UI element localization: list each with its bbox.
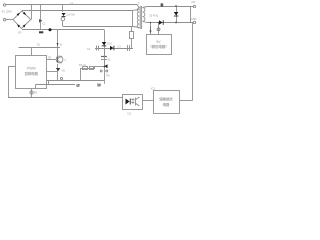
svg-text:误差放大: 误差放大 <box>159 97 173 102</box>
svg-text:R4 C4: R4 C4 <box>79 64 86 67</box>
svg-text:T: T <box>138 2 140 6</box>
svg-text:控制电路: 控制电路 <box>25 71 39 76</box>
svg-text:12V 1W: 12V 1W <box>66 13 75 16</box>
svg-text:电路: 电路 <box>163 102 170 107</box>
svg-text:稳压电路: 稳压电路 <box>152 44 166 49</box>
svg-text:VD: VD <box>18 32 22 35</box>
svg-text:5V: 5V <box>156 40 161 44</box>
svg-text:IC3: IC3 <box>151 88 155 91</box>
svg-text:C5 470µ: C5 470µ <box>149 15 159 18</box>
svg-text:+5V: +5V <box>191 1 196 4</box>
svg-text:IC2: IC2 <box>128 113 132 116</box>
svg-text:VD3: VD3 <box>107 43 112 46</box>
svg-text:VD: VD <box>62 70 66 73</box>
svg-text:GND: GND <box>191 18 197 21</box>
svg-text:PWM: PWM <box>27 66 36 70</box>
svg-text:AC 220V: AC 220V <box>2 10 13 14</box>
